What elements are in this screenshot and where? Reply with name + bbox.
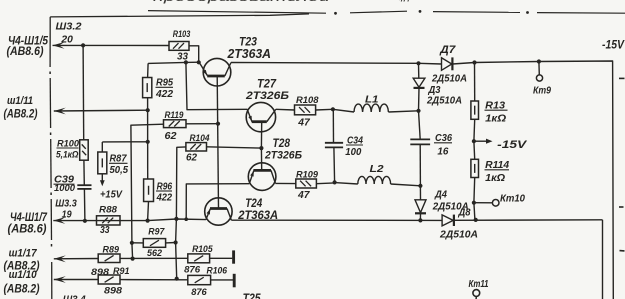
connector label Ш1/11 (АВ8.2) <box>4 95 38 120</box>
wire Ш1/10 row <box>54 279 98 281</box>
capacitor C39 <box>77 160 91 221</box>
wire Ш1/11 rail <box>54 109 148 112</box>
label R13 1кΩ <box>485 99 508 124</box>
wire R103 to T23 emitter node <box>189 46 199 63</box>
label 2Д510А (Д8) <box>439 228 478 240</box>
svg-text:898: 898 <box>104 285 123 296</box>
test point Кт11 <box>473 290 480 299</box>
label Д3 <box>428 84 441 96</box>
svg-text:16: 16 <box>437 146 448 158</box>
node: R108 / C34 <box>331 107 335 111</box>
svg-text:2Т363А: 2Т363А <box>227 47 271 61</box>
net label Ш3.3 <box>55 198 77 209</box>
label Т28 <box>273 138 291 150</box>
label R97 <box>148 226 165 237</box>
resistor R119 <box>164 120 187 128</box>
svg-text:Т28: Т28 <box>273 138 291 150</box>
resistor R104 <box>186 143 207 151</box>
svg-text:Д4: Д4 <box>434 189 447 201</box>
node: -15V tap <box>472 139 476 143</box>
net label Ш3.4 (cut off) <box>63 294 86 299</box>
diode Д7 2Д510А <box>442 57 453 70</box>
wire R109 to L2 <box>316 182 334 185</box>
wire T27 base to node <box>260 122 262 148</box>
wire R95 to R96 <box>147 98 149 179</box>
node: R103 / T23 emitter <box>197 60 201 64</box>
label L2 <box>370 163 384 175</box>
svg-text:R97: R97 <box>148 226 165 237</box>
resistor R103 <box>169 42 189 51</box>
node: top rail / Кт9 <box>537 59 541 63</box>
value 562 (R97) <box>147 248 163 259</box>
svg-text:876: 876 <box>191 287 207 298</box>
label -15V (mid) <box>497 139 528 151</box>
pin number 20 <box>60 35 73 46</box>
node: R95 / Ш1-11 rail <box>146 108 150 112</box>
transistor T24 2Т363А <box>205 198 232 225</box>
svg-text:Ш3.4: Ш3.4 <box>63 294 86 299</box>
label R88 <box>99 205 118 216</box>
capacitor C36 <box>410 111 430 186</box>
label 2Т326Б (T27) <box>245 90 289 102</box>
svg-text:100: 100 <box>345 146 361 158</box>
capacitor C34 <box>325 109 343 182</box>
svg-text:R104: R104 <box>190 133 211 144</box>
resistor R88 <box>97 216 121 225</box>
label Т27 <box>257 79 277 91</box>
label R87 50,5 <box>109 154 128 176</box>
label R95 422 <box>155 77 173 100</box>
wire R119 to base bus <box>186 123 218 125</box>
svg-text:2Д510А: 2Д510А <box>426 94 462 106</box>
svg-text:R106: R106 <box>207 266 228 277</box>
label R96 422 <box>156 181 173 203</box>
svg-text:R91: R91 <box>113 266 130 277</box>
svg-text:R105: R105 <box>192 244 213 255</box>
svg-text:2Д510А: 2Д510А <box>439 228 478 240</box>
label С39 1000 <box>54 175 76 194</box>
wire R114 to rail <box>474 178 475 220</box>
svg-text:50,5: 50,5 <box>110 165 129 176</box>
node: Ш3.2 / R100 junction <box>81 43 85 47</box>
svg-text:1кΩ: 1кΩ <box>485 113 506 125</box>
resistor R89 <box>98 254 120 263</box>
svg-text:С36: С36 <box>435 132 452 144</box>
wire R13 to R114 <box>473 119 476 141</box>
value 47 (R109) <box>297 189 311 201</box>
label С34 100 <box>345 134 363 158</box>
svg-text:562: 562 <box>147 248 163 259</box>
label R119 <box>165 110 185 121</box>
svg-text:+15V: +15V <box>100 188 123 200</box>
node: T28 emitter / rail <box>184 217 188 221</box>
label 2Т363А (T23) <box>227 47 271 61</box>
label 2Д510А (Д3) <box>426 94 462 106</box>
resistor R97 <box>132 239 176 248</box>
svg-text:R108: R108 <box>296 95 319 106</box>
svg-text:Кт10: Кт10 <box>500 192 525 204</box>
+15V feed arrow <box>100 174 105 186</box>
diode Д4 2Д510А <box>415 186 426 221</box>
diode Д8 2Д510А <box>442 215 454 226</box>
wire T23 base-bias rail <box>148 62 199 63</box>
svg-text:2Д510А: 2Д510А <box>431 73 467 85</box>
frame boundary dash-dot line (left) <box>50 17 52 299</box>
value 33 (R88) <box>100 225 110 236</box>
node: rail / R96 <box>146 219 150 223</box>
svg-text:L2: L2 <box>370 163 384 175</box>
svg-text:1кΩ: 1кΩ <box>485 173 505 184</box>
net label Ш3.2 <box>56 20 82 32</box>
svg-text:20: 20 <box>60 35 73 46</box>
transistor T28 2Т326Б <box>248 163 276 191</box>
label +15V <box>100 188 123 200</box>
node: base bus / R119 <box>216 122 220 126</box>
node: rail / Д4 <box>418 218 422 222</box>
label R114 1кΩ <box>485 160 510 184</box>
resistor R100 <box>80 45 89 160</box>
svg-text:R88: R88 <box>99 205 118 216</box>
node: R91 row / R104 column <box>175 277 179 281</box>
wire T28 emitter to emitter rail <box>186 184 249 220</box>
label Т23 <box>239 35 257 49</box>
test point Кт10 <box>474 200 499 207</box>
label Д7 <box>439 44 456 56</box>
label Кт10 <box>500 192 525 204</box>
wire R104 to T27/T28 node <box>207 147 262 148</box>
svg-text:L1: L1 <box>365 93 379 105</box>
value 898 (R91) <box>104 285 123 296</box>
label R109 <box>296 169 319 180</box>
label R89 <box>103 244 120 255</box>
node: Кт10 tap <box>472 201 476 205</box>
wire R106 to terminal <box>211 279 233 281</box>
svg-text:5,1кΩ: 5,1кΩ <box>56 150 79 161</box>
label Т24 <box>245 198 263 210</box>
svg-text:47: 47 <box>297 117 311 129</box>
sheet boundary dash-dot line (top) <box>148 10 625 15</box>
wire base bus T23-T24 <box>217 76 218 209</box>
label -15V (top right) <box>602 40 625 52</box>
value 876 (R106) <box>191 287 207 298</box>
label R106 <box>207 266 228 277</box>
svg-text:R103: R103 <box>173 29 191 40</box>
svg-text:Ш3.2: Ш3.2 <box>56 20 82 32</box>
label Т25 (cut off) <box>243 293 262 299</box>
node: R95-R96 / R87 <box>146 140 150 144</box>
svg-text:62: 62 <box>186 153 197 164</box>
resistor R91 <box>98 275 120 284</box>
svg-text:2Т326Б: 2Т326Б <box>245 90 289 102</box>
wire R96 to emitter rail <box>147 202 150 221</box>
resistor R114 <box>471 141 479 177</box>
node: rail / R114 column <box>474 218 478 222</box>
svg-text:R13: R13 <box>485 99 505 111</box>
resistor R13 <box>471 63 479 120</box>
svg-text:33: 33 <box>100 225 110 236</box>
svg-text:R109: R109 <box>296 169 319 180</box>
inductor L1 <box>333 104 419 112</box>
pin number 19 <box>62 209 72 220</box>
svg-text:422: 422 <box>155 88 173 100</box>
connector arrow Ш1/11 <box>54 108 66 115</box>
resistor R106 <box>188 275 211 284</box>
wire R119 feed <box>131 124 164 258</box>
diode Д3 2Д510А <box>413 63 425 111</box>
wire Ш3.2 rail <box>53 44 170 46</box>
wire R89 to R105 <box>120 257 188 259</box>
resistor R95 <box>143 63 152 97</box>
svg-text:Т25: Т25 <box>243 293 262 299</box>
wire Ш1/17 row <box>54 258 98 260</box>
svg-text:Ш3.3: Ш3.3 <box>55 198 77 209</box>
label 2Т363А (T24) <box>237 208 278 222</box>
label Д8 <box>458 207 471 218</box>
svg-text:(АВ8.6): (АВ8.6) <box>7 46 44 58</box>
svg-text:Кт11: Кт11 <box>469 278 489 290</box>
label 2Т326Б (T28) <box>264 149 302 161</box>
terminal bar (R105) <box>232 250 235 263</box>
transistor T23 2Т363А <box>199 58 231 86</box>
label R100 5,1кΩ <box>56 138 80 160</box>
label Д4 <box>434 189 447 201</box>
label Кт9 <box>533 84 551 96</box>
connector arrow Ш3.2 <box>53 42 65 49</box>
value 876 (R105) <box>184 265 201 276</box>
wire T28 base to node <box>260 148 262 170</box>
resistor R96 <box>144 179 154 202</box>
resistor R87 <box>98 142 148 174</box>
svg-text:Д7: Д7 <box>439 44 456 56</box>
resistor R105 <box>188 254 210 263</box>
svg-text:422: 422 <box>156 193 173 204</box>
test point Кт9 <box>536 62 542 82</box>
connector arrow Ш1/10 <box>54 276 66 283</box>
svg-text:чн: чн <box>397 0 411 3</box>
svg-text:R119: R119 <box>165 110 185 121</box>
connector arrow Ш1/17 <box>54 255 66 262</box>
svg-text:898: 898 <box>91 267 110 278</box>
svg-text:(АВ8.2): (АВ8.2) <box>4 284 40 296</box>
svg-text:19: 19 <box>62 209 72 220</box>
node: R97 right / R104 column <box>174 240 178 244</box>
svg-text:1000: 1000 <box>54 183 76 194</box>
wire drop from rail to emitter bus of T27 <box>186 62 248 109</box>
svg-text:Д8: Д8 <box>458 207 471 218</box>
frame boundary line (top) <box>50 14 309 17</box>
node: R97 left / R119 column <box>130 241 134 245</box>
handwritten title fragment (cut off) <box>153 0 411 4</box>
resistor R109 <box>275 179 316 188</box>
connector label Ч4-Ш1/5 (АВ8.6) <box>7 36 49 58</box>
node: rail / T23-emitter-drop junction <box>184 60 188 64</box>
svg-text:876: 876 <box>184 265 201 276</box>
inductor L2 <box>335 176 421 185</box>
svg-text:(АВ8.2): (АВ8.2) <box>4 109 38 121</box>
node: L1 / Д3 / C36 <box>416 109 420 113</box>
svg-text:2Т326Б: 2Т326Б <box>264 149 302 161</box>
svg-text:Т27: Т27 <box>257 79 277 91</box>
svg-text:R89: R89 <box>103 244 120 255</box>
node: R89 row / R119 column <box>131 257 135 261</box>
label L1 <box>365 93 379 105</box>
wire R105 to terminal <box>210 257 233 259</box>
-15V feed arrow (mid) <box>474 139 493 144</box>
node: top rail / R13 <box>472 60 476 64</box>
label R91 <box>113 266 130 277</box>
value 47 (R108) <box>297 117 311 129</box>
wire main top rail to -15V <box>231 61 613 299</box>
node: top rail / Д3 <box>416 61 420 65</box>
svg-text:ш1/10: ш1/10 <box>9 269 38 281</box>
svg-text:Ч4-Ш1/7: Ч4-Ш1/7 <box>10 212 47 224</box>
node: R109 / C34 bottom <box>333 180 337 184</box>
node: T27 base / R104 / T28 <box>259 146 263 150</box>
svg-text:преобразователей: преобразователей <box>153 0 331 4</box>
connector label Ш1/10 (АВ8.2) <box>4 269 40 296</box>
connector arrow Ш3.3 <box>53 217 65 224</box>
label R104 <box>190 133 211 144</box>
label R105 <box>192 244 213 255</box>
svg-text:Кт9: Кт9 <box>533 84 551 96</box>
wire collector output rail <box>231 220 602 299</box>
transistor T27 2Т326Б <box>246 102 276 131</box>
svg-text:47: 47 <box>297 189 311 201</box>
wire R104 feed <box>176 147 186 279</box>
label 2Д510А (Д4) <box>432 201 469 213</box>
wire emitter rail (left) <box>53 219 206 221</box>
node: rail / C39 <box>83 219 87 223</box>
svg-text:-15V: -15V <box>497 139 528 151</box>
value 898 (R89) <box>91 267 110 278</box>
label R108 <box>296 95 319 106</box>
sheet edge tick marks (right) <box>619 78 625 251</box>
svg-text:62: 62 <box>165 131 177 142</box>
node: rail / R104 feed <box>174 217 178 221</box>
label R103 <box>173 29 191 40</box>
svg-text:-15V: -15V <box>602 40 625 52</box>
label С36 16 <box>434 132 452 158</box>
label Кт11 <box>469 278 489 290</box>
svg-text:ш1/17: ш1/17 <box>9 247 38 259</box>
terminal bar (R106) <box>233 274 236 288</box>
node: L2 / C36 / Д4 <box>418 184 422 188</box>
wire R108 to L1 <box>316 108 333 111</box>
svg-text:ш1/11: ш1/11 <box>7 95 33 107</box>
resistor R108 <box>276 105 316 115</box>
value 62 (R119) <box>165 131 177 142</box>
label 2Д510А (Д7) <box>431 73 467 85</box>
value 62 (R104) <box>186 153 197 164</box>
svg-text:(АВ8.6): (АВ8.6) <box>8 223 47 235</box>
connector label Ч4-Ш1/7 (АВ8.6) <box>8 212 48 235</box>
value 33 (R103) <box>177 52 188 63</box>
wire R91 to R106 <box>120 279 188 281</box>
connector label Ш1/17 (АВ8.2) <box>4 247 40 272</box>
